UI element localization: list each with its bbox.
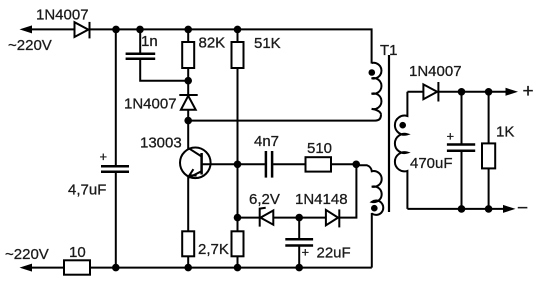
wire base lead xyxy=(202,163,238,165)
svg-text:82K: 82K xyxy=(199,35,226,52)
wire zener node to zener xyxy=(238,217,261,219)
wire zener to 22uF node xyxy=(273,217,326,219)
svg-text:510: 510 xyxy=(307,140,332,157)
diode D2 1N4007 clamp (cathode up) xyxy=(179,95,197,110)
arrow AC input top (points left) xyxy=(20,25,33,33)
resistor 510 xyxy=(306,157,332,171)
junction node: bottom rail / left column xyxy=(112,264,120,272)
wire 1N4148 to feedback node (up) xyxy=(339,164,356,217)
wire 51K bottom through base node to zener node xyxy=(237,68,239,231)
wire top rail to transformer xyxy=(90,29,372,63)
junction node: feedback winding top xyxy=(352,161,360,169)
wire secondary top to output diode xyxy=(407,91,423,93)
svg-text:+: + xyxy=(447,129,455,144)
svg-text:4,7uF: 4,7uF xyxy=(68,182,106,199)
svg-text:2,7K: 2,7K xyxy=(198,241,229,258)
phase dot primary xyxy=(369,69,376,76)
junction node: minus rail / 1K xyxy=(485,205,493,213)
svg-text:1n: 1n xyxy=(141,33,158,50)
wire 82K top lead xyxy=(187,29,189,42)
junction node: minus rail / 470uF xyxy=(458,205,466,213)
junction node: output / 1K xyxy=(485,88,493,96)
wire top rail left segment xyxy=(29,28,75,30)
junction node: top rail / left filter column xyxy=(112,26,120,34)
wire base node to 4n7 xyxy=(238,163,265,165)
resistor 82K xyxy=(182,42,194,68)
junction node: base xyxy=(234,161,242,169)
junction node: top rail / 82K xyxy=(184,26,192,34)
junction node: bottom rail / 2,7K xyxy=(234,264,242,272)
wire bottom rail to feedback winding bottom xyxy=(371,213,373,268)
transistor Q1 13003 (NPN, base right) xyxy=(180,148,211,179)
capacitor C 470uF output filter xyxy=(447,145,475,151)
capacitor C 4n7 feedback xyxy=(266,151,272,178)
wire left column upper (to C 4,7uF) xyxy=(115,29,117,165)
transformer T1 primary winding xyxy=(372,63,382,115)
arrow output minus (points right) xyxy=(503,205,516,213)
wire collector node to primary winding bottom xyxy=(188,115,381,121)
wire 22uF top lead xyxy=(298,218,300,239)
junction node: top rail / 1n branch xyxy=(136,26,144,34)
wire bottom rail left segment xyxy=(29,267,64,269)
phase dot secondary xyxy=(399,122,406,129)
zener diode VD 6,2V (cathode left) xyxy=(260,208,274,227)
svg-text:~220V: ~220V xyxy=(5,246,49,263)
arrow output plus (points right) xyxy=(506,88,519,96)
svg-text:10: 10 xyxy=(69,244,86,261)
wire 1K top lead xyxy=(488,92,490,144)
junction node: zener branch xyxy=(234,214,242,222)
transformer T1 secondary winding xyxy=(395,92,408,209)
wire collector lead xyxy=(187,121,189,150)
resistor 1K xyxy=(482,143,495,168)
capacitor C 1n snubber xyxy=(126,54,156,59)
junction node: top rail / 51K xyxy=(234,26,242,34)
wire 1n bottom to clamp node xyxy=(140,59,188,81)
capacitor C 4,7uF electrolytic xyxy=(101,166,129,172)
wire 1K bottom lead xyxy=(488,168,490,209)
wire 510 to feedback node xyxy=(331,163,356,165)
svg-text:470uF: 470uF xyxy=(410,155,453,172)
wire diode to collector node xyxy=(187,110,189,121)
junction node: collector / primary bottom xyxy=(184,117,192,125)
svg-text:1K: 1K xyxy=(496,124,514,141)
svg-text:4n7: 4n7 xyxy=(254,133,279,150)
diode D3 1N4148 (cathode right) xyxy=(326,209,339,227)
svg-text:+: + xyxy=(523,81,534,102)
wire 470uF top lead xyxy=(461,92,463,145)
arrow AC input bottom (points left) xyxy=(20,264,33,272)
junction node: 22uF top xyxy=(295,214,303,222)
svg-text:−: − xyxy=(517,198,528,219)
svg-text:22uF: 22uF xyxy=(317,245,351,262)
wire output minus rail xyxy=(407,208,504,210)
wire 2,7K to bottom rail xyxy=(237,256,239,267)
wire 22uF to bottom rail xyxy=(298,246,300,268)
svg-text:1N4007: 1N4007 xyxy=(124,96,177,113)
wire output plus rail xyxy=(438,91,506,93)
capacitor C 22uF xyxy=(285,239,313,245)
diode D4 1N4007 output rectifier xyxy=(423,82,438,102)
svg-text:1N4148: 1N4148 xyxy=(295,191,348,208)
resistor emitter 2,7K-left xyxy=(182,231,194,256)
wire left column lower xyxy=(115,172,117,268)
wire 470uF bottom lead xyxy=(461,151,463,209)
svg-text:+: + xyxy=(302,245,310,260)
wire bottom rail main segment xyxy=(90,267,372,269)
wire emitter lead xyxy=(187,177,189,232)
junction node: bottom rail / 22uF xyxy=(295,264,303,272)
resistor 10 xyxy=(64,260,90,274)
wire 82K bottom lead xyxy=(187,68,189,95)
wire emitter resistor to bottom rail xyxy=(187,256,189,267)
svg-text:13003: 13003 xyxy=(140,135,182,152)
svg-text:1N4007: 1N4007 xyxy=(409,63,462,80)
transformer T1 feedback winding xyxy=(356,165,383,215)
diode D1 1N4007 input rectifier xyxy=(75,22,90,39)
svg-text:6,2V: 6,2V xyxy=(249,191,280,208)
wire 4n7 to 510 xyxy=(273,163,305,165)
svg-text:1N4007: 1N4007 xyxy=(36,7,89,24)
junction node: bottom rail / emitter resistor xyxy=(184,264,192,272)
resistor 2,7K xyxy=(232,231,244,256)
junction node: output / 470uF xyxy=(458,88,466,96)
junction node: clamp (82K / 1n / diode) xyxy=(184,77,192,85)
svg-text:51K: 51K xyxy=(254,35,281,52)
wire 1n branch down from rail xyxy=(139,29,141,53)
transformer T1 core xyxy=(388,55,390,212)
resistor 51K xyxy=(232,42,244,68)
svg-text:+: + xyxy=(100,149,108,164)
phase dot feedback xyxy=(371,205,378,212)
wire 51K column (rail to zener node) xyxy=(237,29,239,42)
svg-text:~220V: ~220V xyxy=(8,37,52,54)
